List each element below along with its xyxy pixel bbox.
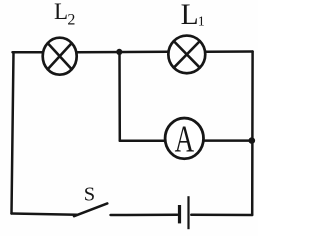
svg-text:2: 2 (67, 12, 75, 29)
svg-text:1: 1 (198, 15, 205, 30)
svg-text:L: L (181, 0, 199, 31)
svg-text:A: A (175, 119, 195, 161)
svg-text:L: L (54, 0, 68, 24)
svg-text:S: S (84, 184, 95, 206)
